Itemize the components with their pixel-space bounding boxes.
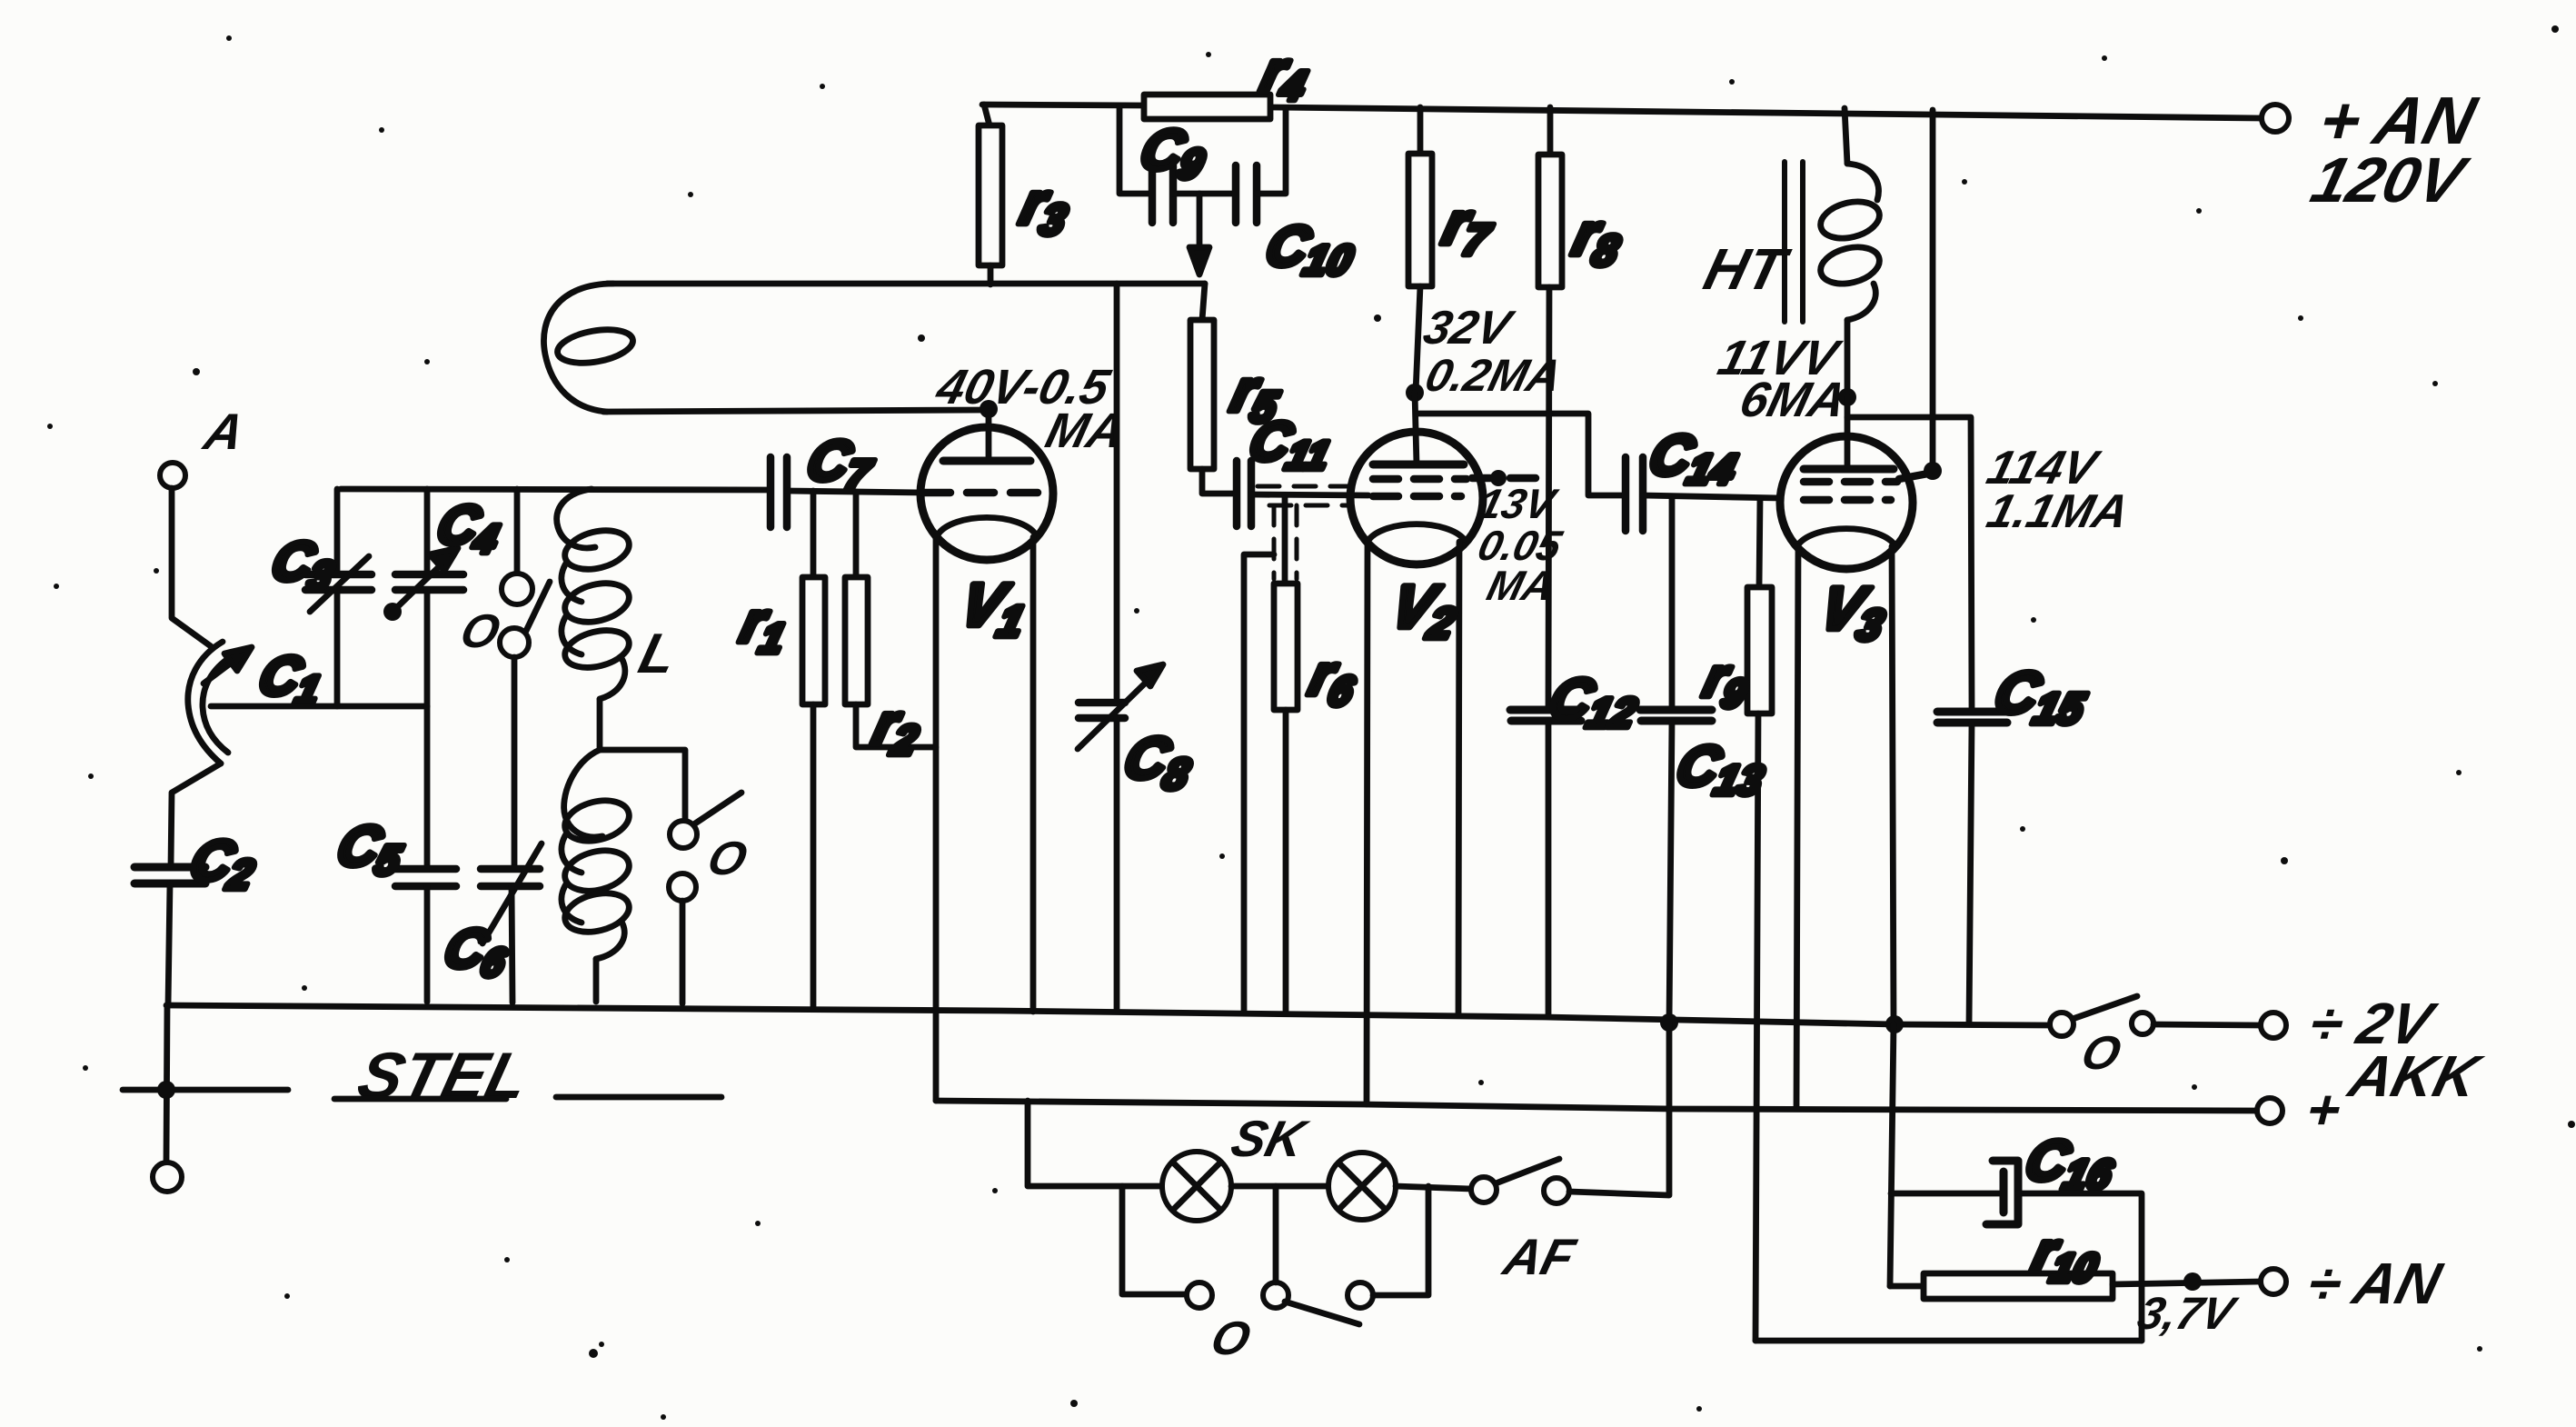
node V1 top-cap junction [980,400,998,418]
label r5 [1223,358,1289,432]
svg-text:O: O [702,833,752,885]
resistor r8 [1538,107,1562,708]
label r9 [1696,647,1757,716]
pentode V2 screen grid [1373,478,1545,479]
label r1 [733,592,796,662]
label C14 [1642,424,1746,493]
ground bus (chassis) [166,1005,2051,1025]
wire C16 branch [1891,1191,2004,1197]
label C11 [1242,411,1339,478]
capacitor C12 [1510,710,1581,1014]
label AKK [2342,1043,2490,1109]
svg-text:HT: HT [1698,236,1796,302]
label STEL [351,1040,536,1113]
label AF [1497,1230,1581,1286]
capacitor C6 (variable) [481,843,542,1003]
svg-text:C11: C11 [1242,411,1339,478]
node V2 screen junction [1490,470,1507,486]
wire antenna lead [172,488,211,646]
lamp1 bypass switch [1122,1186,1288,1308]
earth cross line [123,1087,288,1093]
wire V2 right leg [1458,542,1459,1014]
triode V1 filament [939,517,1035,534]
capacitor C3 (variable) [305,489,372,706]
capacitor C13 [1640,498,1712,1023]
wire V3 leg down to C16/r10 [1890,1024,1894,1286]
resistor r5 [1190,284,1233,494]
lamp SK 2 [1328,1153,1396,1220]
wire between lamps [1231,1183,1328,1190]
label SK [1226,1112,1314,1168]
terminal antenna A [160,463,185,488]
capacitor C14 [1626,457,1643,531]
wire C11 to V2 grid (screened) [1251,486,1368,584]
label C13 [1669,735,1774,803]
label C5 [330,815,412,883]
label C9 [1133,119,1214,187]
wire C1/C3/C4 bottom link [211,704,427,710]
node bus/C13/AF junction [1660,1013,1678,1032]
node r7/V2 junction [1406,384,1424,402]
svg-text:6MA: 6MA [1735,372,1852,427]
svg-text:32V: 32V [1418,302,1519,354]
svg-text:C4: C4 [430,494,508,562]
capacitor C9 [1152,165,1199,223]
capacitor C15 [1937,712,2007,1024]
wire lamp2 to AF switch [1396,1186,1471,1189]
label C8 [1116,725,1201,799]
label HT [1698,236,1796,302]
svg-text:A: A [197,404,250,461]
capacitor C11 [1237,461,1251,526]
label r3 [1012,171,1078,244]
wire anode-coil bottom conductor [603,410,985,412]
wire V3 screen to top bus [1930,110,1936,468]
node 3.7V junction [2183,1272,2202,1291]
pentode V3 filament [1799,529,1894,544]
label C6 [437,918,516,985]
label + (AKK) [2300,1079,2348,1142]
wire grid line right [787,491,923,493]
label r6 [1302,644,1366,714]
wire below bus to earth cross [166,1005,167,1162]
label A [197,404,250,461]
svg-text:r4: r4 [1254,41,1316,109]
wire V1 left leg [933,537,940,1101]
wire C9/C10 box right [1257,108,1286,194]
svg-text:V1: V1 [952,572,1035,646]
svg-text:r2: r2 [866,694,929,763]
pentode V3 control grid [1804,496,1891,504]
label +AN [2312,83,2484,158]
label C1 [252,645,330,713]
node bus/V3 leg junction [1885,1015,1904,1033]
wire anode-coil top conductor [607,281,1205,287]
label divide AN [2302,1251,2450,1316]
inductor L lower winding [561,750,633,1002]
wire V3 left leg [1796,546,1798,1109]
label C7 [800,430,882,498]
label 6MA [1735,372,1852,427]
pentode V3 screen grid [1804,474,1928,482]
wire loop bottom [1755,1338,2142,1344]
wire screen ground link [1244,554,1274,1012]
svg-text:r1: r1 [733,592,796,662]
capacitor C8 (variable) [1078,664,1163,1012]
svg-text:C8: C8 [1116,725,1201,799]
label C12 [1542,668,1646,736]
resistor r6 [1274,584,1298,1013]
wire V2 top-cap [1415,393,1417,464]
label O (upper switch) [455,605,505,658]
switch AF [1471,1159,1569,1203]
arrow from C9/C10 junction down [1189,194,1209,274]
wire C8 branch from top conductor [1114,284,1120,698]
label C3 [264,531,343,598]
label C2 [183,830,264,898]
triode V1 grid [923,489,1052,497]
wire r7 junction to C14 [1417,414,1626,495]
capacitor C7 [771,457,787,527]
label 40V-0.5 MA [930,359,1117,414]
resistor r1 [802,491,825,1007]
svg-text:MA: MA [1483,563,1559,609]
label 1.1MA [1982,485,2134,538]
svg-text:C7: C7 [800,430,882,498]
svg-text:C6: C6 [437,918,516,985]
label 13V [1474,481,1563,527]
svg-text:C15: C15 [1986,660,2096,733]
pentode V2 control grid [1373,493,1461,501]
svg-text:V2: V2 [1383,574,1466,648]
svg-text:C2: C2 [183,830,264,898]
resistor r3 [979,105,1002,284]
svg-text:C16: C16 [2018,1130,2123,1198]
svg-text:C5: C5 [330,815,412,883]
wire junction to V3 anode [1845,397,1851,467]
resistor r9 [1747,498,1772,1341]
wire AF switch to bus junction [1569,1192,1668,1195]
label V2 [1383,574,1466,648]
svg-text:O: O [455,605,505,658]
pentode V2 anode [1373,461,1464,469]
label r2 [866,694,929,763]
terminal -2V [2261,1013,2286,1038]
node HT/V3 anode junction [1838,388,1856,406]
label C15 [1986,660,2096,733]
label 32V [1418,302,1519,354]
svg-text:r6: r6 [1302,644,1366,714]
wire lamp feed from filament bus [1028,1101,1162,1186]
capacitor C16 (electrolytic) [1986,1161,2018,1224]
node earth cross junction [157,1081,175,1099]
transformer HT core [1785,162,1803,322]
triode V1 envelope [920,427,1053,560]
svg-text:+: + [2300,1079,2348,1142]
svg-text:C10: C10 [1258,215,1363,284]
label 114V [1982,442,2105,494]
terminal -AN [2261,1269,2286,1294]
label r7 [1435,191,1502,264]
wire STEL dash right [556,1094,721,1101]
svg-text:r7: r7 [1435,191,1502,264]
svg-text:SK: SK [1226,1112,1314,1168]
label O (coil tap switch) [702,833,752,885]
svg-text:C9: C9 [1133,119,1214,187]
label 120V [2304,145,2475,216]
transformer HT winding [1816,108,1883,391]
filament bus +AKK [936,1101,2257,1111]
pentode V3 envelope [1780,436,1913,569]
svg-text:r8: r8 [1565,202,1631,275]
label 0.05 [1474,523,1567,569]
svg-text:L: L [633,623,683,685]
pentode V3 anode [1804,465,1894,474]
wire junction to C15 [1847,417,1972,709]
switch O (coil tap) [669,793,741,1003]
lamp2 bypass switch [1285,1186,1428,1324]
svg-text:V3: V3 [1812,575,1895,650]
inductor L upper winding [557,489,633,750]
resistor r4 [1144,95,1270,119]
switch 2V [2050,996,2260,1036]
svg-text:0.2MA: 0.2MA [1420,350,1566,401]
node V3 screen junction [1924,462,1942,480]
svg-text:O: O [2076,1027,2126,1080]
pentode V2 envelope [1350,432,1483,564]
wire C16 to right loop side [2018,1193,2142,1341]
anode coupling coil loop [543,284,635,412]
label MA (V2) [1483,563,1559,609]
wire STEL dash mid [334,1096,506,1103]
label V1 [952,572,1035,646]
wire C14 to V3 grid [1643,495,1781,498]
svg-text:AF: AF [1497,1230,1581,1286]
lamp SK 1 [1162,1152,1231,1221]
wire V3 right leg [1892,546,1894,1024]
capacitor C5 [395,706,456,1002]
label O (2V switch) [2076,1027,2126,1080]
label V3 [1812,575,1895,650]
svg-text:÷ AN: ÷ AN [2302,1251,2450,1316]
terminal +AKK [2257,1098,2283,1123]
top +AN supply bus [982,105,2260,118]
wire grid line left [341,489,771,490]
capacitor C10 [1199,165,1257,223]
label L [633,623,683,685]
label divide 2V [2303,991,2443,1056]
wire V1 right leg [1030,537,1037,1012]
capacitor C1 (variable, curved plates) [188,642,252,763]
label r10 [2025,1222,2108,1291]
svg-text:r3: r3 [1012,171,1078,244]
capacitor C4 (variable with arrow) [383,489,463,706]
label r8 [1565,202,1631,275]
label C16 [2018,1130,2123,1198]
switch O (wave change upper) [500,489,550,867]
svg-text:C14: C14 [1642,424,1746,493]
resistor r10 [1890,1273,2260,1299]
wire V2 left leg [1367,542,1368,1104]
resistor r7 [1408,107,1432,393]
terminal +AN [2262,105,2289,132]
wire C13 junction down to AF wire [1666,1023,1673,1195]
label O (lamp bypass) [1206,1312,1256,1365]
wire C9/C10 box left [1119,106,1152,194]
svg-text:3,7V: 3,7V [2133,1288,2243,1339]
capacitor C2 [134,867,205,1005]
wire C1 to C2 [171,763,221,865]
label C4 [430,494,508,562]
svg-text:C1: C1 [252,645,330,713]
svg-text:AKK: AKK [2342,1043,2490,1109]
svg-text:13V: 13V [1474,481,1563,527]
label C10 [1258,215,1363,284]
terminal earth [153,1163,182,1192]
pentode V2 filament [1369,524,1464,539]
label 0.2MA [1420,350,1566,401]
wire L tap to switch [600,750,685,821]
triode V1 anode [943,412,1030,461]
svg-text:C12: C12 [1542,668,1646,736]
svg-text:120V: 120V [2304,145,2475,216]
svg-text:O: O [1206,1312,1256,1365]
svg-text:1.1MA: 1.1MA [1982,485,2134,538]
label 3,7V [2133,1288,2243,1339]
resistor r2 [845,492,936,747]
label r4 [1254,41,1316,109]
label 11VV [1713,330,1847,385]
